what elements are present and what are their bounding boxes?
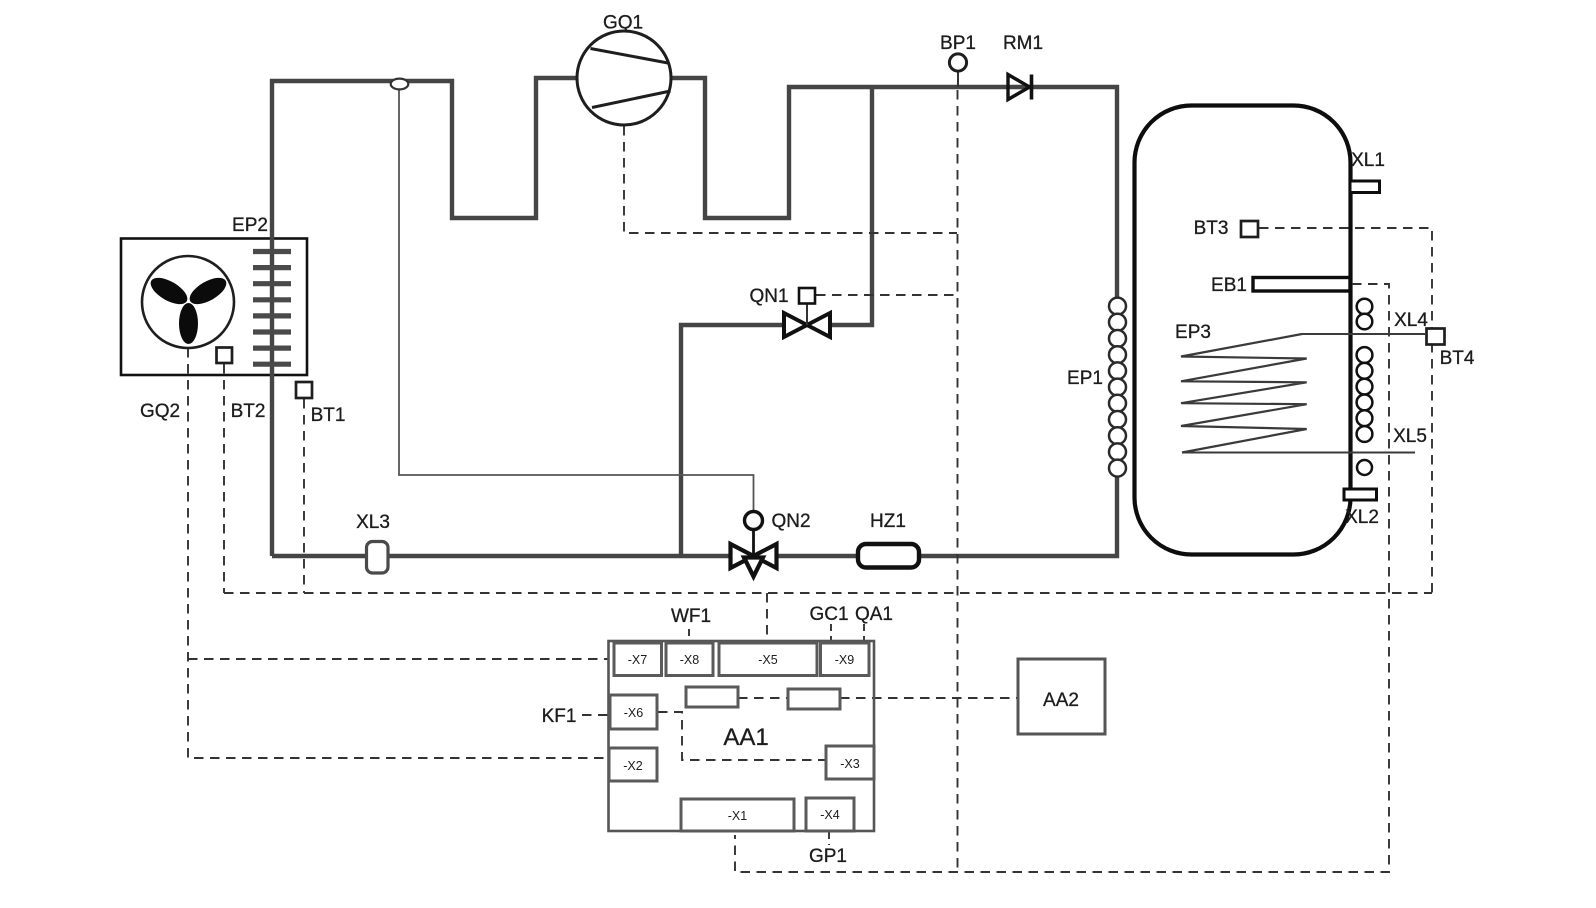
wire: branch from top pipe down to valve QN1 — [830, 87, 872, 325]
terminal -X1 — [681, 799, 794, 831]
svg-text:BP1: BP1 — [940, 33, 976, 54]
valve QN1 — [784, 288, 830, 337]
controller AA1 box — [609, 641, 875, 831]
svg-text:QN1: QN1 — [749, 286, 788, 307]
wire: dashed from heater EB1 right riser down, bottom run to terminal -X1 — [735, 284, 1389, 872]
svg-text:XL4: XL4 — [1394, 310, 1428, 331]
svg-text:AA2: AA2 — [1043, 690, 1079, 711]
terminal -X4 — [806, 798, 854, 831]
terminal -X7 — [614, 643, 662, 676]
coil EP3 (zig-zag) — [1181, 334, 1307, 453]
sensor BT4 — [1427, 329, 1445, 345]
wire: dashed stub from KF1 label to terminal -X6 — [582, 714, 609, 716]
svg-text:EP2: EP2 — [232, 215, 268, 236]
svg-text:-X1: -X1 — [728, 809, 748, 823]
wire: thin equalizer line from junction node to valve QN2 actuator — [399, 88, 754, 512]
svg-text:-X6: -X6 — [624, 706, 644, 720]
svg-text:QA1: QA1 — [855, 604, 893, 625]
connection XL4 line — [1302, 333, 1425, 335]
fan unit EP2 outdoor box — [121, 239, 307, 376]
fan GQ2 — [142, 256, 234, 348]
sensor BT3 — [1241, 221, 1258, 237]
relay block left — [686, 687, 738, 707]
svg-text:-X8: -X8 — [680, 653, 700, 667]
check valve RM1 — [1008, 75, 1032, 100]
wire: dashed link terminal -X6 to terminal -X3 — [658, 712, 825, 760]
svg-text:BT4: BT4 — [1440, 348, 1475, 369]
svg-text:BT2: BT2 — [231, 401, 266, 422]
svg-text:HZ1: HZ1 — [870, 511, 906, 532]
wire: dashed from fan GQ2 down with branches to AA1 — [188, 348, 608, 758]
svg-text:-X9: -X9 — [835, 653, 855, 667]
svg-text:-X5: -X5 — [758, 653, 778, 667]
sensor BT1 — [296, 382, 312, 398]
wire: dashed from sensor BT3 to right riser down to bus — [1259, 228, 1432, 593]
svg-text:AA1: AA1 — [723, 724, 768, 751]
tank coil wrap (right side circles) — [1357, 299, 1373, 475]
svg-text:EP1: EP1 — [1067, 368, 1103, 389]
svg-text:BT1: BT1 — [311, 405, 346, 426]
svg-text:XL2: XL2 — [1345, 507, 1379, 528]
wire: compressor outlet zig-zag to condenser down-pipe — [670, 78, 1117, 298]
compressor GQ1 — [577, 31, 671, 125]
condenser coil EP1 — [1109, 298, 1126, 477]
wire: dashed stem QA1 to terminal -X9 — [863, 624, 865, 642]
wire: dashed vertical from sensor BP1 down to bottom bus — [957, 90, 959, 872]
svg-text:-X7: -X7 — [628, 653, 648, 667]
terminal -X6 — [610, 695, 657, 729]
sensor BP1 — [949, 54, 966, 87]
wire: dashed stem from bus down to terminal -X5 — [766, 593, 768, 641]
svg-text:GQ2: GQ2 — [140, 401, 180, 422]
terminal -X9 — [821, 643, 870, 676]
crankcase heater HZ1 — [858, 544, 919, 568]
svg-text:EP3: EP3 — [1175, 322, 1211, 343]
wire: dashed from valve QN1 to BP1 line — [816, 294, 957, 296]
svg-text:XL5: XL5 — [1393, 426, 1427, 447]
svg-text:WF1: WF1 — [671, 606, 711, 627]
wire: dashed stem from terminal -X4 to GP1 label — [828, 832, 830, 845]
svg-text:XL3: XL3 — [356, 512, 390, 533]
svg-text:BT3: BT3 — [1194, 218, 1229, 239]
svg-text:XL1: XL1 — [1351, 150, 1385, 171]
service port XL3 — [367, 542, 389, 574]
wire: dashed drop from sensor BT2 — [223, 364, 225, 593]
svg-text:GQ1: GQ1 — [603, 13, 643, 34]
svg-text:-X4: -X4 — [820, 808, 840, 822]
svg-text:RM1: RM1 — [1003, 33, 1043, 54]
wire: dashed sensor bus BT2/BT1 to BT3 riser — [224, 592, 1432, 594]
wire: dashed link relay block to AA2 — [840, 697, 1017, 699]
wire: valve QN1 left to down-leg joining bottom run — [681, 325, 784, 556]
svg-text:-X2: -X2 — [623, 759, 643, 773]
wire: dashed from compressor GQ1 to BP1 line — [624, 126, 957, 233]
controller AA2 box — [1018, 659, 1105, 734]
svg-text:GC1: GC1 — [809, 604, 848, 625]
sensor BT2 — [217, 348, 233, 364]
terminal -X2 — [609, 748, 657, 781]
svg-text:QN2: QN2 — [771, 511, 810, 532]
valve QN2 (3-way) — [731, 512, 777, 577]
wire: dashed stem WF1 to terminal -X8 — [688, 629, 690, 642]
node: junction ellipse on top pipe — [391, 79, 409, 90]
terminal -X3 — [826, 746, 874, 779]
relay block right — [788, 689, 840, 709]
wire: dashed drop from sensor BT1 — [303, 399, 305, 593]
svg-text:KF1: KF1 — [542, 706, 577, 727]
terminal -X5 — [719, 643, 817, 676]
wire: left refrigerant loop (EP2 riser, top zig-zag to compressor) — [272, 78, 578, 556]
connection XL1 — [1350, 181, 1380, 193]
wire: dashed branch to terminal -X7 — [188, 658, 608, 660]
wire: dashed stem GC1 to terminal -X9 — [830, 624, 832, 642]
evaporator EP2 fins — [253, 252, 291, 365]
svg-text:EB1: EB1 — [1211, 275, 1247, 296]
heating element EB1 — [1253, 278, 1350, 292]
wire: condenser pipe below coil to bottom run back to EP2 — [272, 476, 1117, 556]
connection XL5 line — [1182, 452, 1415, 454]
connection XL2 — [1344, 489, 1377, 500]
svg-text:GP1: GP1 — [809, 846, 847, 867]
terminal -X8 — [666, 643, 713, 676]
wire: dashed link between relay blocks — [738, 697, 788, 699]
storage tank — [1135, 106, 1351, 555]
svg-text:-X3: -X3 — [840, 757, 860, 771]
